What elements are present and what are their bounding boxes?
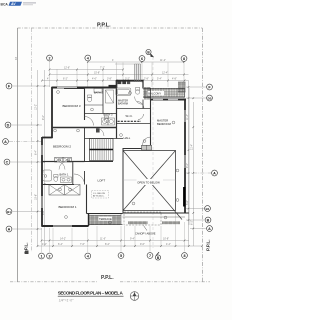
svg-text:2: 2 bbox=[48, 254, 50, 258]
svg-text:6'-2": 6'-2" bbox=[191, 220, 194, 225]
svg-text:2'-8": 2'-8" bbox=[144, 78, 149, 81]
svg-text:6'-4": 6'-4" bbox=[35, 150, 38, 155]
svg-text:12'-6": 12'-6" bbox=[64, 67, 70, 70]
svg-text:9'-2": 9'-2" bbox=[186, 163, 189, 168]
svg-text:8: 8 bbox=[183, 57, 185, 61]
svg-text:AV: AV bbox=[10, 2, 16, 6]
svg-text:2: 2 bbox=[48, 56, 50, 60]
svg-text:P.P.L.: P.P.L. bbox=[97, 23, 111, 29]
svg-text:6'-4": 6'-4" bbox=[58, 243, 63, 246]
svg-text:SECOND FLOOR PLAN – MODEL A: SECOND FLOOR PLAN – MODEL A bbox=[58, 291, 124, 296]
svg-text:15'-6": 15'-6" bbox=[35, 194, 38, 200]
svg-text:40': 40' bbox=[15, 56, 18, 60]
svg-text:BATH 1: BATH 1 bbox=[60, 173, 69, 177]
svg-text:LOFT: LOFT bbox=[98, 178, 106, 182]
svg-text:3'-8": 3'-8" bbox=[107, 78, 112, 81]
svg-text:A: A bbox=[208, 227, 211, 231]
svg-text:BEDROOM: BEDROOM bbox=[157, 122, 172, 126]
svg-text:12'-4": 12'-4" bbox=[162, 72, 168, 75]
svg-text:BEDROOM 3: BEDROOM 3 bbox=[63, 104, 81, 108]
svg-text:21'-4": 21'-4" bbox=[191, 144, 194, 150]
svg-text:4'-4": 4'-4" bbox=[166, 243, 171, 246]
svg-text:15'-8": 15'-8" bbox=[94, 72, 100, 75]
svg-text:C: C bbox=[6, 160, 9, 164]
svg-text:4'-6": 4'-6" bbox=[92, 78, 97, 81]
svg-text:HALL: HALL bbox=[124, 136, 131, 140]
svg-text:BEDROOM 1: BEDROOM 1 bbox=[59, 205, 77, 209]
svg-text:P.P.L.: P.P.L. bbox=[101, 275, 114, 281]
svg-text:C.L. BELOW: C.L. BELOW bbox=[93, 193, 105, 195]
svg-text:B1: B1 bbox=[7, 210, 11, 214]
svg-text:BCA: BCA bbox=[1, 3, 9, 7]
svg-text:B: B bbox=[207, 218, 210, 222]
svg-text:W.I.C.: W.I.C. bbox=[126, 114, 134, 118]
svg-text:1/4"=1'-0": 1/4"=1'-0" bbox=[59, 298, 74, 302]
svg-text:4'-8": 4'-8" bbox=[172, 78, 177, 81]
svg-text:7'-2": 7'-2" bbox=[100, 67, 105, 70]
svg-text:5'-4": 5'-4" bbox=[157, 78, 162, 81]
svg-text:ATTIC ACC.: ATTIC ACC. bbox=[93, 195, 105, 198]
svg-text:5'-6": 5'-6" bbox=[186, 200, 189, 205]
svg-text:B1: B1 bbox=[206, 207, 210, 211]
svg-text:BEDROOM 2: BEDROOM 2 bbox=[53, 144, 71, 148]
svg-text:8'-2": 8'-2" bbox=[105, 243, 110, 246]
svg-text:D: D bbox=[7, 123, 10, 127]
svg-text:A: A bbox=[213, 171, 216, 175]
svg-text:11'-2": 11'-2" bbox=[160, 59, 166, 62]
svg-text:11'-6": 11'-6" bbox=[100, 238, 106, 241]
svg-text:7'-6": 7'-6" bbox=[80, 243, 85, 246]
svg-text:BATH 2: BATH 2 bbox=[94, 91, 103, 95]
svg-text:MASTER: MASTER bbox=[157, 119, 168, 123]
svg-text:P.P.L.: P.P.L. bbox=[206, 239, 211, 251]
svg-text:BATHRM: BATHRM bbox=[118, 102, 128, 105]
svg-text:9'-4": 9'-4" bbox=[130, 238, 135, 241]
svg-text:BATH 3: BATH 3 bbox=[104, 112, 113, 116]
svg-text:6'-2": 6'-2" bbox=[63, 78, 68, 81]
svg-text:5: 5 bbox=[120, 254, 122, 258]
svg-text:10'-8": 10'-8" bbox=[163, 238, 169, 241]
svg-text:4'-2": 4'-2" bbox=[42, 243, 47, 246]
svg-text:7: 7 bbox=[149, 254, 151, 258]
svg-text:D5: D5 bbox=[208, 96, 212, 100]
svg-text:12'-2": 12'-2" bbox=[35, 104, 38, 110]
svg-text:A: A bbox=[4, 140, 7, 144]
svg-text:1: 1 bbox=[40, 254, 42, 258]
svg-text:11'-4": 11'-4" bbox=[186, 114, 189, 120]
svg-text:CANOPY ABOVE: CANOPY ABOVE bbox=[135, 232, 156, 236]
svg-text:9'-6": 9'-6" bbox=[140, 243, 145, 246]
svg-text:TERRACE: TERRACE bbox=[99, 217, 112, 221]
svg-text:9'-2": 9'-2" bbox=[42, 115, 45, 120]
svg-text:OPEN TO BELOW: OPEN TO BELOW bbox=[137, 181, 160, 185]
svg-text:14'-2": 14'-2" bbox=[60, 238, 66, 241]
svg-text:6: 6 bbox=[141, 57, 143, 61]
svg-text:8: 8 bbox=[183, 254, 185, 258]
svg-text:A: A bbox=[8, 227, 11, 231]
